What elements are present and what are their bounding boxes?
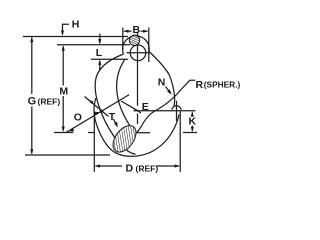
wire top extension line1 <box>23 36 128 38</box>
arrowhead D left <box>95 164 100 167</box>
svg-text:K: K <box>189 116 197 128</box>
arrowhead T upper <box>89 100 94 104</box>
arrowhead M up <box>62 45 65 50</box>
svg-text:(REF): (REF) <box>38 97 61 107</box>
hook left limb inner <box>117 60 132 129</box>
eye stock hatching <box>130 36 139 45</box>
arrowhead L up <box>98 60 101 65</box>
arrowhead B left <box>123 30 128 33</box>
svg-text:O: O <box>74 112 82 124</box>
arrowhead G up <box>30 37 33 42</box>
dimension E left tick <box>134 109 141 113</box>
wire D extension left <box>93 113 95 172</box>
svg-text:E: E <box>142 101 149 113</box>
svg-text:H: H <box>72 19 80 31</box>
arrowhead D right <box>175 164 180 167</box>
arrowhead T lower <box>99 109 104 113</box>
eye top stock circle <box>129 35 139 45</box>
dimension D line <box>96 165 123 167</box>
leader T arrow line <box>114 119 117 126</box>
dimension E line <box>134 110 196 112</box>
wire M bottom extension <box>54 132 73 134</box>
arrowhead T leader <box>114 122 117 128</box>
eye hole circle <box>130 45 146 61</box>
svg-text:T: T <box>109 111 116 123</box>
arrowhead N <box>167 89 172 94</box>
svg-text:(REF): (REF) <box>136 164 159 174</box>
svg-text:(SPHER.): (SPHER.) <box>204 80 241 90</box>
node eye centerline <box>137 33 139 106</box>
arrowhead H down <box>61 31 64 36</box>
wire D extension right <box>179 111 181 172</box>
hook bowl outer rim <box>94 98 179 156</box>
svg-text:M: M <box>59 86 68 98</box>
svg-text:R: R <box>196 79 204 91</box>
svg-text:B: B <box>133 24 141 36</box>
dimension G line <box>31 38 33 95</box>
svg-text:L: L <box>96 47 103 59</box>
arrowhead O upper <box>94 112 99 115</box>
hook outer eye <box>123 36 150 54</box>
hook shank right outline <box>149 52 175 107</box>
leader R <box>182 80 196 89</box>
leader N <box>166 87 171 93</box>
dimension T diagonal <box>85 97 109 117</box>
arrowhead L down <box>98 39 101 44</box>
wire extension line3 <box>91 58 128 60</box>
dimension L upper arrow shaft <box>99 34 101 44</box>
svg-text:D: D <box>126 163 134 175</box>
hook left limb outer <box>95 54 135 154</box>
dimension O diagonal <box>66 95 129 133</box>
dimension B extension left <box>122 28 124 51</box>
dimension K line <box>191 112 193 114</box>
dimension M line <box>62 46 64 85</box>
dimension B line <box>124 30 131 32</box>
svg-text:N: N <box>158 77 166 89</box>
svg-text:G: G <box>28 96 37 108</box>
arrowhead B right <box>143 30 148 33</box>
hook bowl inner curve <box>118 89 182 145</box>
wire extension line2 <box>57 44 130 46</box>
dimension L lower arrow shaft <box>99 61 101 71</box>
arrowhead K down <box>191 127 194 132</box>
node tip center vertical <box>176 101 178 121</box>
hook tip sphere arc <box>172 106 181 110</box>
arrowhead M down <box>62 127 65 132</box>
wire K bottom extension <box>183 132 197 134</box>
dimension O short diagonal <box>121 101 138 111</box>
dimension B extension right <box>148 28 150 63</box>
arrowhead G down <box>30 149 33 154</box>
arrowhead K up <box>191 111 194 116</box>
section cross-section hatched <box>108 121 140 156</box>
dimension H leader <box>63 24 70 34</box>
arrowhead O lower <box>69 128 74 131</box>
wire baseline <box>25 154 110 156</box>
node eye hole horizontal centerline <box>127 52 151 54</box>
